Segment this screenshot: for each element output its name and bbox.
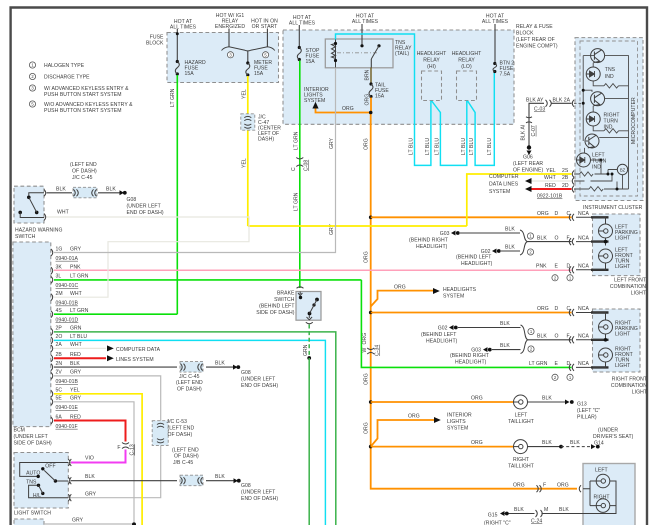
svg-text:ORG: ORG	[365, 94, 371, 106]
svg-text:BRAKE: BRAKE	[277, 291, 295, 297]
svg-text:G08: G08	[241, 483, 251, 489]
svg-text:0940-01B: 0940-01B	[56, 379, 79, 385]
svg-text:DATA LINES: DATA LINES	[489, 182, 519, 188]
svg-text:LT BLU: LT BLU	[409, 138, 415, 155]
svg-text:LT BLU: LT BLU	[469, 138, 475, 155]
svg-text:GRY: GRY	[85, 492, 97, 498]
svg-text:BLK: BLK	[505, 245, 515, 251]
svg-text:G15: G15	[488, 513, 498, 519]
svg-text:(LEFT END: (LEFT END	[172, 447, 199, 453]
svg-text:ORG: ORG	[513, 482, 525, 488]
svg-text:0940-01C: 0940-01C	[56, 283, 79, 289]
svg-text:PUSH BUTTON START SYSTEM: PUSH BUTTON START SYSTEM	[44, 92, 122, 98]
svg-text:G03: G03	[440, 231, 450, 237]
svg-text:ORG: ORG	[537, 306, 549, 312]
svg-text:HEADLIGHT: HEADLIGHT	[417, 51, 447, 57]
svg-text:SWITCH: SWITCH	[15, 234, 36, 240]
svg-text:C-08: C-08	[304, 160, 310, 171]
svg-text:NCA: NCA	[578, 211, 589, 217]
svg-text:3K: 3K	[56, 264, 63, 270]
svg-text:(TAIL): (TAIL)	[395, 51, 409, 57]
svg-text:0940-01E: 0940-01E	[56, 405, 79, 411]
svg-text:SYSTEM: SYSTEM	[304, 98, 325, 104]
svg-text:HEADLIGHT: HEADLIGHT	[452, 51, 482, 57]
svg-text:HAZARD WARNING: HAZARD WARNING	[15, 228, 63, 234]
svg-text:M: M	[544, 507, 548, 513]
svg-text:OR START: OR START	[252, 24, 278, 30]
svg-text:ORG: ORG	[364, 138, 370, 150]
svg-text:C: C	[291, 167, 297, 171]
svg-text:BLK: BLK	[570, 440, 580, 446]
svg-text:END OF DASH): END OF DASH)	[241, 383, 278, 389]
svg-text:2O: 2O	[56, 334, 63, 340]
svg-text:SIDE OF DASH): SIDE OF DASH)	[14, 441, 53, 447]
svg-text:2S: 2S	[562, 168, 569, 174]
svg-text:HALOGEN TYPE: HALOGEN TYPE	[44, 63, 85, 69]
svg-text:LT BLU: LT BLU	[70, 334, 87, 340]
svg-text:5E: 5E	[56, 396, 63, 402]
svg-text:C-34: C-34	[375, 345, 381, 356]
svg-text:TNS: TNS	[605, 67, 616, 73]
svg-text:(LEFT END: (LEFT END	[176, 380, 203, 386]
svg-text:WHT: WHT	[57, 210, 69, 216]
svg-text:(BEHIND RIGHT: (BEHIND RIGHT	[409, 238, 448, 244]
svg-text:BZ: BZ	[620, 167, 626, 172]
svg-text:HEADLIGHTS: HEADLIGHTS	[443, 287, 477, 293]
svg-text:SIDE OF DASH): SIDE OF DASH)	[256, 310, 295, 316]
svg-text:(LEFT REAR: (LEFT REAR	[513, 161, 543, 167]
svg-text:BRN: BRN	[365, 69, 371, 80]
svg-text:ORG: ORG	[471, 440, 483, 446]
svg-text:BLK: BLK	[559, 507, 569, 513]
svg-text:LT BLU: LT BLU	[434, 138, 440, 155]
svg-text:OF DASH): OF DASH)	[174, 454, 199, 460]
svg-text:OF DASH): OF DASH)	[72, 169, 97, 175]
svg-text:RIGHT FRONT: RIGHT FRONT	[612, 377, 647, 383]
svg-text:2B: 2B	[562, 175, 569, 181]
svg-text:ALL TIMES: ALL TIMES	[170, 25, 197, 31]
svg-text:(LEFT END: (LEFT END	[70, 162, 97, 168]
svg-text:LIGHT: LIGHT	[615, 264, 630, 270]
svg-text:BLK: BLK	[542, 440, 552, 446]
svg-text:ORG: ORG	[364, 251, 370, 263]
svg-text:INTERIOR: INTERIOR	[447, 413, 472, 419]
svg-text:BLOCK: BLOCK	[516, 31, 534, 37]
svg-text:HEADLIGHT): HEADLIGHT)	[426, 339, 458, 345]
svg-text:E: E	[555, 264, 559, 270]
svg-text:J/C C-45: J/C C-45	[179, 374, 200, 380]
svg-text:D: D	[555, 211, 559, 217]
svg-text:0940-01F: 0940-01F	[56, 424, 78, 430]
svg-text:BLK AY: BLK AY	[526, 98, 544, 104]
svg-text:(BEHIND LEFT: (BEHIND LEFT	[456, 255, 491, 261]
svg-text:BLK 2A: BLK 2A	[553, 98, 571, 104]
svg-text:NCA: NCA	[578, 361, 589, 367]
svg-text:BLK: BLK	[70, 361, 80, 367]
svg-text:2D: 2D	[562, 183, 569, 189]
svg-text:LT GRN: LT GRN	[70, 274, 89, 280]
svg-text:ORG: ORG	[557, 482, 569, 488]
svg-text:NCA: NCA	[578, 264, 589, 270]
svg-text:2A: 2A	[56, 342, 63, 348]
svg-text:G14: G14	[594, 441, 604, 447]
svg-text:2N: 2N	[56, 361, 63, 367]
svg-text:O: O	[555, 334, 559, 340]
svg-text:INSTRUMENT CLUSTER: INSTRUMENT CLUSTER	[583, 205, 643, 211]
svg-text:4S: 4S	[56, 308, 63, 314]
svg-text:GRY: GRY	[329, 223, 335, 235]
svg-text:LEFT: LEFT	[595, 468, 608, 474]
svg-text:G06: G06	[523, 155, 533, 161]
svg-text:RED: RED	[70, 414, 81, 420]
svg-text:WHT: WHT	[544, 175, 556, 181]
svg-text:LIGHT: LIGHT	[615, 332, 630, 338]
svg-text:(UNDER: (UNDER	[598, 428, 618, 434]
svg-text:DASH): DASH)	[258, 137, 274, 143]
svg-text:LEFT: LEFT	[515, 413, 528, 419]
svg-text:BLK: BLK	[514, 507, 524, 513]
svg-text:(LO): (LO)	[461, 64, 472, 70]
svg-text:(LEFT "C": (LEFT "C"	[577, 408, 600, 414]
svg-text:2P: 2P	[56, 326, 63, 332]
svg-text:(HI): (HI)	[427, 64, 436, 70]
svg-text:GRY: GRY	[329, 137, 335, 149]
svg-text:(LEFT REAR OF: (LEFT REAR OF	[516, 37, 555, 43]
svg-text:TAILLIGHT: TAILLIGHT	[508, 464, 534, 470]
svg-text:SWITCH: SWITCH	[274, 297, 295, 303]
svg-text:D: D	[555, 306, 559, 312]
svg-text:OF ENGINE): OF ENGINE)	[513, 168, 543, 174]
svg-text:(UNDER LEFT: (UNDER LEFT	[127, 204, 161, 210]
svg-text:COMBINATION: COMBINATION	[611, 383, 647, 389]
svg-text:15A: 15A	[306, 59, 316, 65]
svg-text:6A: 6A	[56, 414, 63, 420]
svg-text:LIGHT: LIGHT	[632, 390, 647, 396]
svg-text:BCM: BCM	[14, 428, 25, 434]
svg-text:NCA: NCA	[578, 334, 589, 340]
svg-text:LT BLU: LT BLU	[487, 138, 493, 155]
svg-text:J/B C-45: J/B C-45	[173, 460, 193, 466]
svg-text:BLK: BLK	[500, 343, 510, 349]
svg-text:LT GRN: LT GRN	[170, 88, 176, 107]
svg-text:1G: 1G	[56, 247, 63, 253]
svg-text:GRN: GRN	[70, 326, 82, 332]
svg-text:RIGHT: RIGHT	[513, 457, 529, 463]
svg-text:BLK: BLK	[215, 361, 225, 367]
svg-text:HEADLIGHT): HEADLIGHT)	[455, 360, 487, 366]
svg-text:SYSTEM: SYSTEM	[447, 426, 468, 432]
svg-text:W: W	[362, 348, 368, 353]
svg-text:OF DASH): OF DASH)	[177, 387, 202, 393]
svg-text:C-24: C-24	[531, 519, 542, 525]
svg-text:PNK: PNK	[536, 264, 547, 270]
svg-text:RED: RED	[545, 183, 556, 189]
svg-text:NCA: NCA	[578, 306, 589, 312]
svg-text:GRY: GRY	[70, 247, 82, 253]
svg-text:(BEHIND LEFT: (BEHIND LEFT	[259, 304, 294, 310]
svg-text:YEL: YEL	[242, 158, 248, 168]
svg-text:RED: RED	[70, 352, 81, 358]
svg-text:END OF DASH): END OF DASH)	[127, 210, 164, 216]
svg-text:ORG: ORG	[537, 211, 549, 217]
svg-text:BLK: BLK	[215, 474, 225, 480]
svg-text:YEL: YEL	[242, 89, 248, 99]
svg-text:F: F	[543, 482, 546, 488]
svg-text:BLK AI: BLK AI	[521, 125, 527, 141]
svg-text:2M: 2M	[56, 291, 63, 297]
svg-text:BLK: BLK	[542, 396, 552, 402]
svg-text:YEL: YEL	[70, 388, 80, 394]
svg-text:COMBINATION: COMBINATION	[610, 284, 646, 290]
svg-text:IND: IND	[604, 125, 613, 131]
svg-text:PILLAR): PILLAR)	[577, 415, 597, 421]
svg-text:H/L: H/L	[33, 493, 41, 499]
svg-text:ORG: ORG	[364, 373, 370, 385]
svg-text:3L: 3L	[56, 274, 62, 280]
svg-text:LT GRN: LT GRN	[70, 308, 89, 314]
svg-text:(UNDER LEFT: (UNDER LEFT	[14, 434, 48, 440]
svg-text:YEL: YEL	[546, 168, 556, 174]
svg-text:RELAY: RELAY	[458, 58, 475, 64]
svg-text:15A: 15A	[254, 71, 264, 77]
svg-text:BLK: BLK	[85, 474, 95, 480]
svg-text:MICROCOMPUTER: MICROCOMPUTER	[631, 97, 637, 144]
svg-text:LT GRN: LT GRN	[294, 192, 300, 211]
svg-text:GRY: GRY	[70, 396, 82, 402]
svg-text:(BEHIND RIGHT: (BEHIND RIGHT	[450, 353, 489, 359]
svg-text:BLK: BLK	[500, 321, 510, 327]
svg-text:RELAY: RELAY	[423, 58, 440, 64]
svg-text:J/C C-45: J/C C-45	[72, 175, 93, 181]
svg-text:BLK: BLK	[537, 334, 547, 340]
svg-text:SYSTEM: SYSTEM	[489, 189, 510, 195]
svg-text:G13: G13	[577, 402, 587, 408]
svg-text:WHT: WHT	[70, 291, 82, 297]
svg-text:LINES SYSTEM: LINES SYSTEM	[116, 357, 154, 363]
svg-text:IND: IND	[605, 74, 614, 80]
svg-text:LIGHT SWITCH: LIGHT SWITCH	[14, 511, 51, 517]
svg-text:ORG: ORG	[408, 414, 420, 420]
svg-text:0922-101B: 0922-101B	[537, 194, 563, 200]
svg-text:ORG: ORG	[342, 106, 354, 112]
svg-text:LT BLU: LT BLU	[425, 138, 431, 155]
svg-text:(UNDER LEFT: (UNDER LEFT	[241, 376, 275, 382]
svg-text:LIGHT: LIGHT	[615, 236, 630, 242]
svg-text:COMPUTER DATA: COMPUTER DATA	[116, 347, 161, 353]
svg-text:ALL TIMES: ALL TIMES	[289, 21, 316, 27]
svg-text:C-13: C-13	[130, 444, 136, 455]
svg-text:ALL TIMES: ALL TIMES	[352, 19, 379, 25]
svg-text:ENGINE COMPT): ENGINE COMPT)	[516, 44, 558, 50]
svg-text:ENERGIZED: ENERGIZED	[215, 24, 245, 30]
svg-text:E: E	[555, 361, 559, 367]
svg-text:GRY: GRY	[70, 370, 82, 376]
svg-text:DISCHARGE TYPE: DISCHARGE TYPE	[44, 74, 90, 80]
svg-text:LIGHTS: LIGHTS	[447, 419, 466, 425]
svg-text:LIGHT: LIGHT	[615, 363, 630, 369]
svg-text:(RIGHT "C": (RIGHT "C"	[484, 521, 511, 525]
svg-text:0940-01D: 0940-01D	[56, 317, 79, 323]
svg-text:RELAY & FUSE: RELAY & FUSE	[516, 24, 553, 30]
svg-text:LIGHT: LIGHT	[631, 291, 646, 297]
svg-text:15A: 15A	[185, 71, 195, 77]
svg-text:(LEFT END: (LEFT END	[168, 425, 195, 431]
svg-text:J/C C-53: J/C C-53	[167, 419, 188, 425]
svg-text:OF DASH): OF DASH)	[168, 432, 193, 438]
svg-text:2V: 2V	[56, 370, 63, 376]
svg-text:PUSH BUTTON START SYSTEM: PUSH BUTTON START SYSTEM	[44, 108, 122, 114]
svg-text:WHT: WHT	[70, 342, 82, 348]
svg-text:15A: 15A	[375, 94, 385, 100]
svg-text:0940-01A: 0940-01A	[56, 256, 79, 262]
svg-text:TAILLIGHT: TAILLIGHT	[508, 419, 534, 425]
svg-text:(UNDER LEFT: (UNDER LEFT	[241, 489, 275, 495]
svg-text:F: F	[117, 445, 120, 451]
svg-text:O: O	[555, 235, 559, 241]
svg-text:BLK: BLK	[505, 227, 515, 233]
svg-text:BLK: BLK	[106, 187, 116, 193]
svg-text:BLOCK: BLOCK	[146, 41, 164, 47]
svg-text:G02: G02	[438, 326, 448, 332]
svg-text:GRY: GRY	[72, 518, 84, 524]
svg-text:PNK: PNK	[70, 264, 81, 270]
svg-text:HEADLIGHT): HEADLIGHT)	[416, 244, 448, 250]
svg-text:SYSTEM: SYSTEM	[443, 294, 464, 300]
svg-text:ORG: ORG	[394, 285, 406, 291]
svg-text:0940-01B: 0940-01B	[56, 301, 79, 307]
svg-text:LT BLU: LT BLU	[461, 138, 467, 155]
svg-text:7.5A: 7.5A	[500, 72, 511, 78]
svg-text:G08: G08	[127, 197, 137, 203]
svg-text:DRIVER'S SEAT): DRIVER'S SEAT)	[593, 434, 634, 440]
svg-text:LT GRN: LT GRN	[294, 131, 300, 150]
svg-text:VIO: VIO	[85, 456, 94, 462]
svg-text:C-03: C-03	[534, 107, 545, 113]
svg-text:ORG: ORG	[362, 333, 368, 345]
svg-text:BLK: BLK	[537, 235, 547, 241]
svg-text:C-07: C-07	[531, 125, 537, 136]
svg-text:IND: IND	[592, 165, 601, 171]
svg-text:BLK: BLK	[56, 187, 66, 193]
svg-text:RIGHT: RIGHT	[594, 495, 610, 501]
svg-text:G08: G08	[241, 370, 251, 376]
svg-text:LT GRN: LT GRN	[529, 361, 548, 367]
svg-text:2B: 2B	[56, 352, 63, 358]
svg-text:TNS: TNS	[26, 480, 37, 486]
svg-text:END OF DASH): END OF DASH)	[241, 496, 278, 502]
svg-text:5C: 5C	[56, 388, 63, 394]
svg-text:ORG: ORG	[364, 422, 370, 434]
svg-text:NCA: NCA	[578, 235, 589, 241]
svg-text:HEADLIGHT): HEADLIGHT)	[461, 261, 493, 267]
svg-text:COMPUTER: COMPUTER	[489, 174, 519, 180]
svg-text:(BEHIND LEFT: (BEHIND LEFT	[421, 332, 456, 338]
svg-text:OFF: OFF	[45, 463, 55, 469]
svg-text:LEFT FRONT: LEFT FRONT	[614, 278, 646, 284]
svg-text:ORG: ORG	[471, 396, 483, 402]
svg-text:GRN: GRN	[303, 344, 309, 356]
